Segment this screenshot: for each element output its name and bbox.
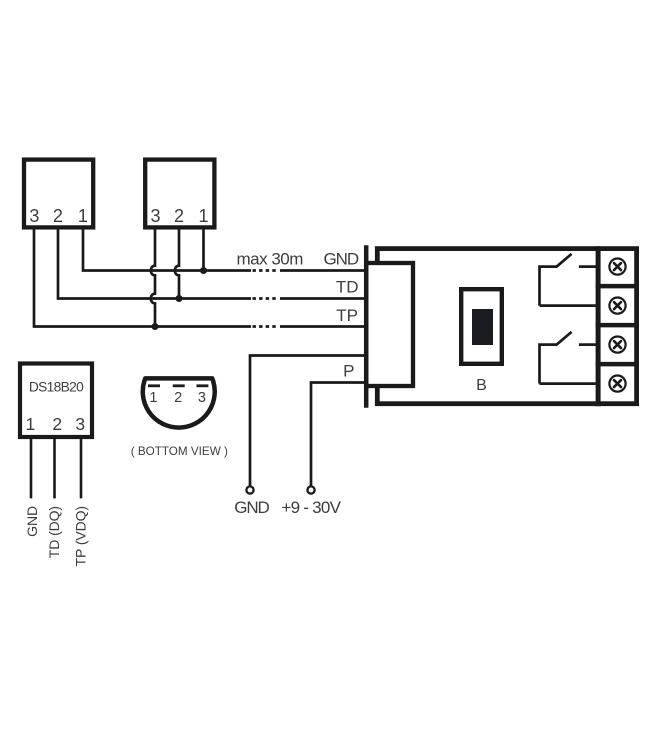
svg-text:TP: TP — [336, 306, 358, 325]
svg-text:B: B — [476, 377, 487, 394]
svg-text:TD (DQ): TD (DQ) — [46, 506, 62, 558]
svg-text:GND: GND — [324, 249, 359, 268]
svg-text:3: 3 — [29, 206, 39, 226]
svg-text:GND: GND — [234, 498, 269, 517]
svg-text:( BOTTOM VIEW ): ( BOTTOM VIEW ) — [131, 445, 228, 458]
svg-text:2: 2 — [174, 390, 182, 406]
svg-text:1: 1 — [198, 206, 208, 226]
svg-text:max 30m: max 30m — [237, 249, 304, 268]
svg-text:1: 1 — [26, 414, 36, 434]
svg-text:2: 2 — [53, 206, 63, 226]
svg-text:3: 3 — [198, 390, 206, 406]
svg-text:GND: GND — [24, 506, 40, 537]
svg-text:+9 - 30V: +9 - 30V — [281, 498, 341, 517]
svg-text:2: 2 — [174, 206, 184, 226]
svg-text:1: 1 — [78, 206, 88, 226]
svg-text:3: 3 — [75, 414, 85, 434]
svg-text:TP (VDQ): TP (VDQ) — [73, 506, 89, 566]
svg-text:P: P — [343, 362, 354, 381]
svg-text:2: 2 — [52, 414, 62, 434]
svg-text:DS18B20: DS18B20 — [29, 380, 84, 395]
svg-text:3: 3 — [150, 206, 160, 226]
svg-text:1: 1 — [149, 390, 157, 406]
svg-text:TD: TD — [336, 278, 359, 297]
